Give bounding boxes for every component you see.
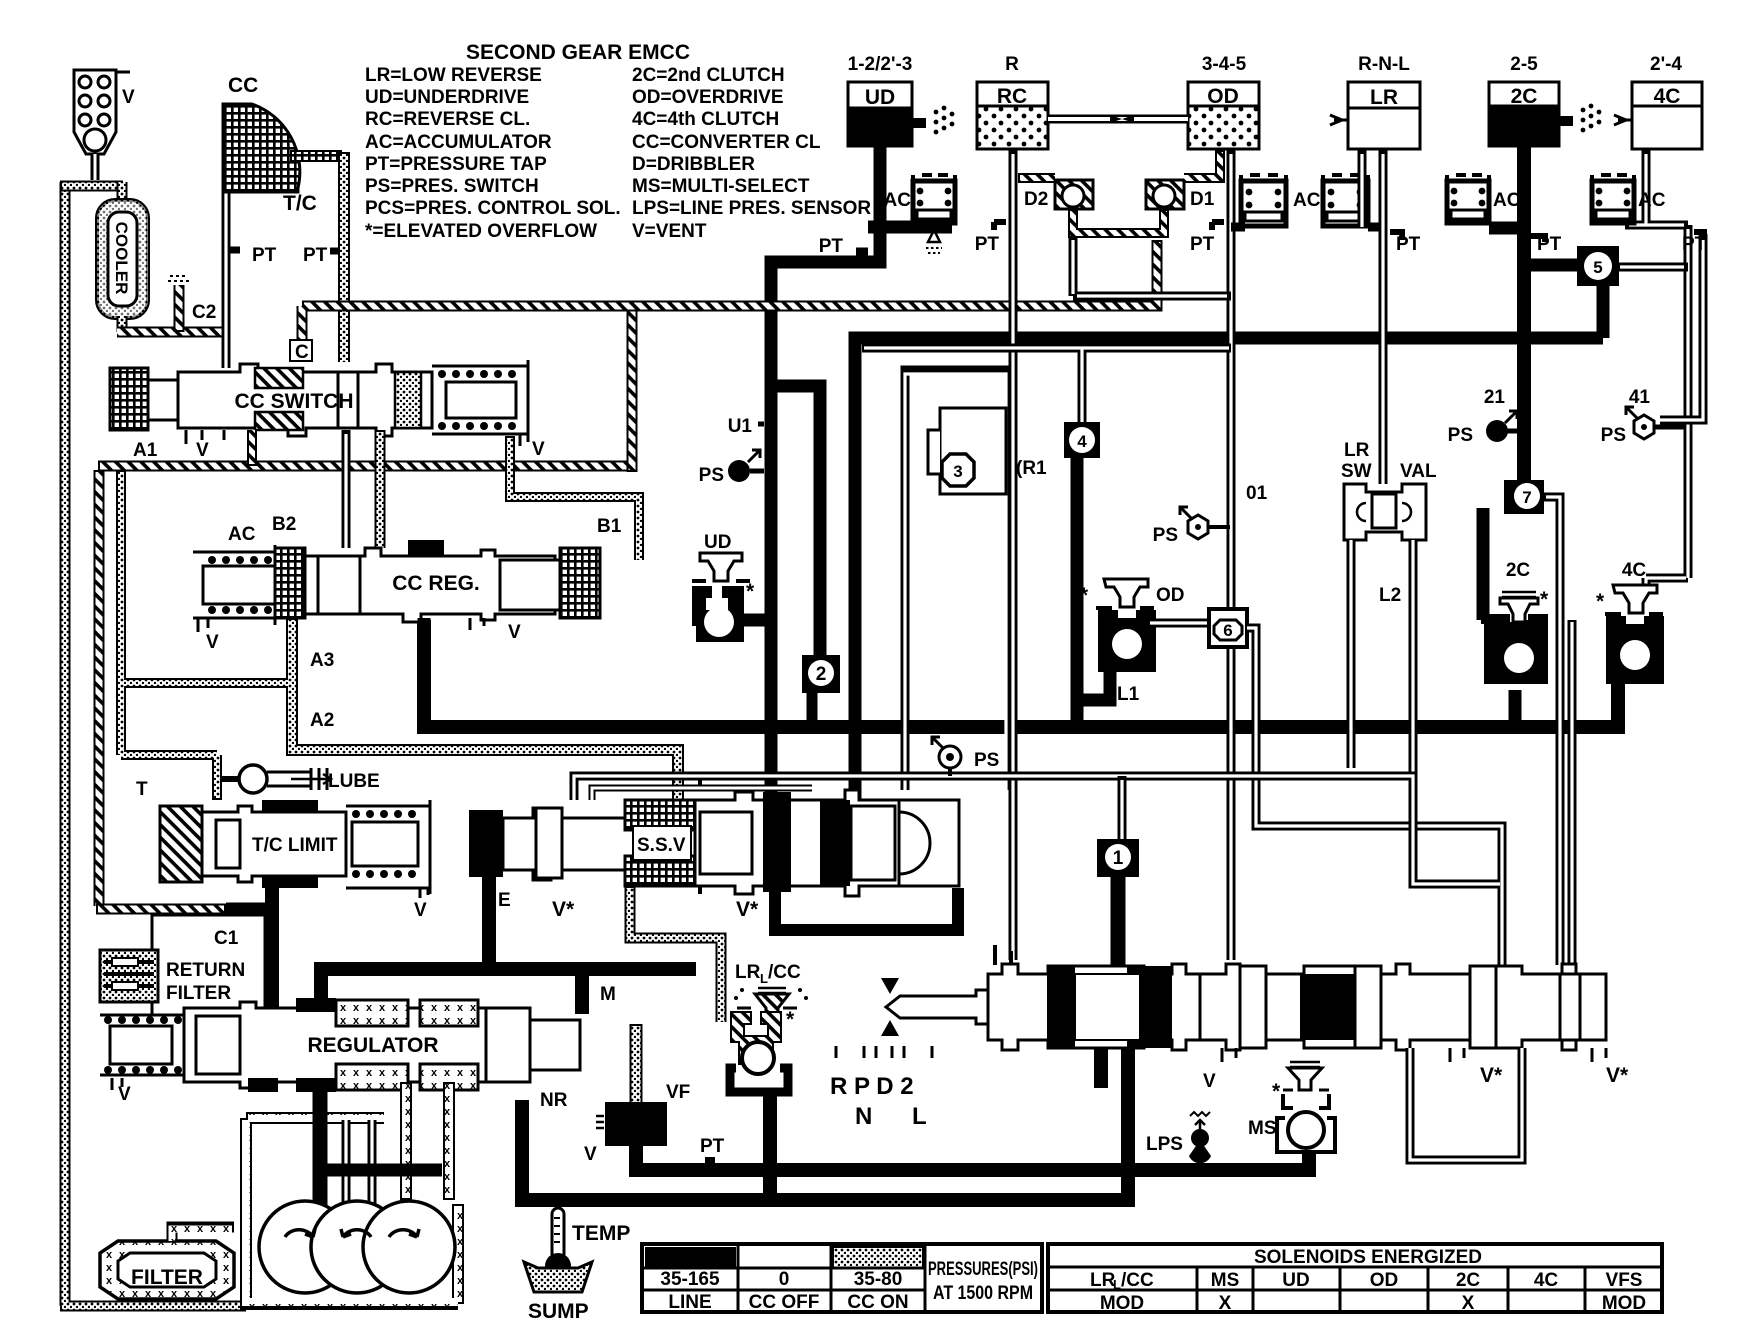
valve LR SW VAL bbox=[1344, 484, 1426, 540]
svg-text:PT: PT bbox=[1537, 234, 1562, 255]
manual valve lever bbox=[881, 978, 988, 1036]
clutch chamber UD (filled) bbox=[848, 82, 954, 146]
gear ticks bbox=[836, 1046, 932, 1058]
svg-text:2C: 2C bbox=[1456, 1270, 1481, 1291]
svg-text:V=VENT: V=VENT bbox=[632, 221, 707, 242]
svg-text:FILTER: FILTER bbox=[166, 983, 231, 1004]
svg-text:OD: OD bbox=[1156, 585, 1185, 606]
svg-text:21: 21 bbox=[1484, 387, 1506, 408]
svg-text:V*: V* bbox=[552, 898, 575, 921]
svg-text:R-N-L: R-N-L bbox=[1358, 54, 1410, 75]
check ball 4 bbox=[1064, 422, 1100, 458]
lube restrictor bbox=[222, 765, 331, 793]
svg-text:OD: OD bbox=[1370, 1270, 1399, 1291]
crosshatch pipe SSV to LRL/CC bbox=[630, 886, 721, 1022]
svg-text:35-80: 35-80 bbox=[854, 1269, 903, 1290]
svg-text:L1: L1 bbox=[1117, 684, 1140, 705]
PT stub 4C bbox=[1694, 232, 1704, 240]
svg-text:2C=2nd CLUTCH: 2C=2nd CLUTCH bbox=[632, 65, 785, 86]
thick pipe CC REG down bbox=[418, 618, 431, 727]
svg-text:(R1: (R1 bbox=[1016, 458, 1047, 479]
svg-text:PT: PT bbox=[819, 236, 844, 257]
pipe UD feed thick bbox=[771, 146, 880, 800]
suction crosshatch loop bbox=[246, 1082, 458, 1304]
hatched pipe cooler to CC line bbox=[117, 327, 228, 338]
accumulator AC (LR) bbox=[1323, 175, 1383, 227]
svg-text:E: E bbox=[498, 890, 511, 911]
svg-text:L: L bbox=[760, 971, 768, 986]
svg-text:AT 1500 RPM: AT 1500 RPM bbox=[933, 1283, 1033, 1304]
svg-text:*: * bbox=[746, 580, 755, 603]
thick pipe E down bbox=[482, 877, 496, 963]
svg-text:D1: D1 bbox=[1190, 189, 1215, 210]
svg-text:PS: PS bbox=[974, 750, 999, 771]
svg-text:SOLENOIDS ENERGIZED: SOLENOIDS ENERGIZED bbox=[1254, 1247, 1482, 1268]
svg-text:*=ELEVATED OVERFLOW: *=ELEVATED OVERFLOW bbox=[365, 221, 597, 242]
stipple riser to CC REG bbox=[375, 430, 386, 548]
dribbler D2 bbox=[1055, 180, 1093, 209]
svg-text:REGULATOR: REGULATOR bbox=[307, 1034, 438, 1057]
svg-text:/CC: /CC bbox=[768, 962, 801, 983]
hatched link OD to D1 bbox=[1184, 150, 1220, 178]
svg-text:SUMP: SUMP bbox=[528, 1300, 589, 1323]
svg-text:4C=4th CLUTCH: 4C=4th CLUTCH bbox=[632, 109, 779, 130]
cooler feed stub bbox=[117, 182, 128, 205]
main line thick y338 bbox=[855, 338, 1603, 800]
svg-text:L: L bbox=[912, 1103, 927, 1130]
svg-text:2: 2 bbox=[816, 664, 827, 685]
thick pipe LRL down bbox=[763, 1092, 777, 1200]
svg-text:LR=LOW REVERSE: LR=LOW REVERSE bbox=[365, 65, 542, 86]
PT stub on T/C return line bbox=[330, 248, 338, 255]
svg-text:RC: RC bbox=[997, 85, 1027, 108]
pipe 4C sol down to main bbox=[1612, 674, 1625, 720]
pipe E2 short bbox=[592, 788, 812, 800]
accumulator AC (UD) bbox=[868, 175, 955, 227]
svg-text:1-2/2'-3: 1-2/2'-3 bbox=[848, 54, 913, 75]
C2 hatched stub bbox=[174, 285, 185, 332]
svg-text:*: * bbox=[1272, 1080, 1281, 1103]
clutch chamber OD (dotted) bbox=[1188, 82, 1259, 149]
check ball 3 bbox=[928, 408, 1006, 494]
pipe B1 (stipple) bbox=[510, 436, 639, 560]
svg-text:PT=PRESSURE TAP: PT=PRESSURE TAP bbox=[365, 154, 547, 175]
main line thick y727 bbox=[424, 620, 1618, 727]
thermometer TEMP bbox=[545, 1208, 571, 1279]
hatched pipe T/C right then down bbox=[290, 150, 342, 162]
svg-text:NR: NR bbox=[540, 1090, 568, 1111]
svg-text:LR: LR bbox=[1090, 1270, 1116, 1291]
svg-text:V*: V* bbox=[736, 898, 759, 921]
PT stub RC bbox=[994, 222, 1006, 230]
solenoid LRL/CC bbox=[730, 988, 797, 1092]
svg-text:1: 1 bbox=[1113, 848, 1124, 869]
svg-text:LINE: LINE bbox=[668, 1292, 711, 1313]
valve CC REG body bbox=[275, 548, 600, 630]
check ball 7 bbox=[1504, 480, 1544, 514]
svg-text:UD: UD bbox=[1282, 1270, 1309, 1291]
svg-text:OD: OD bbox=[1207, 85, 1239, 108]
pipe vent down to loop bbox=[91, 154, 100, 180]
svg-text:AC: AC bbox=[884, 190, 912, 211]
svg-text:PCS: PCS bbox=[616, 1116, 655, 1137]
hatched drop left x99 bbox=[94, 470, 105, 906]
pipe R1 loop bbox=[905, 370, 1010, 790]
solenoid 4C overflow bbox=[1605, 585, 1664, 684]
svg-text:2C: 2C bbox=[1511, 85, 1538, 108]
valve CC SWITCH bbox=[110, 360, 528, 446]
svg-text:3: 3 bbox=[953, 462, 962, 481]
svg-text:SW: SW bbox=[1341, 461, 1372, 482]
svg-text:V: V bbox=[508, 622, 521, 643]
svg-text:R: R bbox=[1005, 54, 1019, 75]
pipe LRSW left down + L1 junction bbox=[1351, 540, 1413, 775]
svg-text:VF: VF bbox=[666, 1082, 690, 1103]
svg-text:M: M bbox=[600, 984, 616, 1005]
pipe 4C PT drop bbox=[1660, 234, 1703, 420]
black caps regulator bbox=[248, 998, 336, 1092]
clutch chamber 4C (empty) bbox=[1614, 82, 1702, 149]
svg-text:AC: AC bbox=[1638, 190, 1666, 211]
svg-text:PS: PS bbox=[1601, 425, 1626, 446]
svg-text:5: 5 bbox=[1593, 258, 1602, 277]
pipe ball5 to 4C column bbox=[1618, 263, 1688, 272]
svg-text:PS: PS bbox=[699, 465, 724, 486]
spray dots LRL bbox=[734, 988, 808, 1000]
solenoids energized table bbox=[1048, 1244, 1662, 1314]
stippled suction pipe left side tall bbox=[60, 182, 246, 1306]
pipe 4C feed bbox=[1625, 150, 1688, 585]
PT stub bottom bbox=[705, 1157, 715, 1163]
PT stub LR bbox=[1390, 232, 1402, 240]
pump feed channels bbox=[346, 1120, 372, 1204]
pipe OD sol down bbox=[1077, 668, 1110, 700]
return filter element bbox=[100, 950, 158, 1002]
svg-text:T/C LIMIT: T/C LIMIT bbox=[252, 835, 338, 856]
svg-text:RC=REVERSE CL.: RC=REVERSE CL. bbox=[365, 109, 530, 130]
pipe OD sol to ball 6 bbox=[1148, 619, 1209, 628]
pipe 7 left leg thick bbox=[1477, 508, 1490, 620]
pump pressure out thick bbox=[313, 1080, 328, 1210]
svg-text:PS: PS bbox=[1448, 425, 1473, 446]
svg-text:MS: MS bbox=[1248, 1118, 1277, 1139]
svg-text:V: V bbox=[414, 900, 427, 921]
black loop under SSV right bbox=[775, 888, 958, 930]
accumulator AC (2C) bbox=[1447, 175, 1524, 228]
dribbler D1 bbox=[1146, 180, 1184, 209]
svg-text:PT: PT bbox=[1682, 234, 1707, 255]
torque converter T/C hatched lobe bbox=[223, 104, 300, 192]
solenoid 2C overflow bbox=[1481, 592, 1548, 684]
svg-text:4: 4 bbox=[1077, 432, 1087, 451]
pressure switch PS (4C, hex) bbox=[1626, 407, 1684, 439]
svg-text:4C: 4C bbox=[1622, 560, 1647, 581]
pipe RC PT column bbox=[1009, 150, 1018, 960]
svg-text:LPS: LPS bbox=[1146, 1134, 1183, 1155]
dribbler spray under UD AC bbox=[928, 230, 940, 242]
svg-text:PT: PT bbox=[700, 1136, 725, 1157]
svg-text:VAL: VAL bbox=[1400, 461, 1437, 482]
svg-text:MOD: MOD bbox=[1602, 1293, 1646, 1314]
svg-text:AC: AC bbox=[1493, 190, 1521, 211]
xhatch pockets regulator bbox=[336, 1000, 408, 1026]
svg-text:MS=MULTI-SELECT: MS=MULTI-SELECT bbox=[632, 176, 810, 197]
pressure switch PS (L1) bbox=[932, 737, 961, 776]
hatched U D2-D1 bbox=[1073, 209, 1164, 233]
manual valve body bbox=[988, 964, 1202, 1050]
svg-text:B2: B2 bbox=[272, 514, 296, 535]
svg-text:V*: V* bbox=[1480, 1064, 1503, 1087]
spring CC SWITCH bbox=[432, 360, 528, 440]
svg-text:T: T bbox=[136, 779, 148, 800]
svg-text:V: V bbox=[206, 632, 219, 653]
COOLER bbox=[97, 200, 148, 318]
svg-text:41: 41 bbox=[1629, 387, 1651, 408]
bottom line 2 bbox=[522, 1048, 1128, 1200]
svg-text:LUBE: LUBE bbox=[328, 771, 380, 792]
svg-text:01: 01 bbox=[1246, 483, 1268, 504]
pump circle 3 bbox=[363, 1201, 455, 1293]
svg-text:CC: CC bbox=[228, 74, 258, 97]
svg-text:SECOND GEAR EMCC: SECOND GEAR EMCC bbox=[466, 41, 690, 64]
pump circle 1 bbox=[259, 1201, 351, 1293]
svg-text:PS=PRES. SWITCH: PS=PRES. SWITCH bbox=[365, 176, 539, 197]
branch to ball 5 bbox=[1524, 259, 1580, 272]
svg-text:CC ON: CC ON bbox=[847, 1292, 908, 1313]
PT stub OD bbox=[1212, 222, 1224, 230]
svg-text:V: V bbox=[122, 87, 135, 108]
pipe L1 bbox=[574, 776, 1500, 884]
svg-text:PT: PT bbox=[1396, 234, 1421, 255]
white tank loop bbox=[1410, 1048, 1522, 1160]
check ball 1 bbox=[1097, 839, 1139, 877]
valve rear clutch spool bbox=[1200, 964, 1606, 1050]
svg-text:35-165: 35-165 bbox=[660, 1269, 720, 1290]
svg-text:AC: AC bbox=[228, 524, 256, 545]
pipe cooler bottom bbox=[117, 316, 128, 332]
pump circle 2 bbox=[311, 1201, 403, 1293]
check ball 6 bbox=[1209, 609, 1247, 647]
svg-text:LR: LR bbox=[1370, 86, 1398, 109]
accumulator AC (4C) bbox=[1592, 175, 1634, 223]
PT stub on CC line bbox=[230, 247, 240, 254]
svg-text:4C: 4C bbox=[1534, 1270, 1559, 1291]
sump SUMP bbox=[524, 1262, 592, 1292]
svg-text:2-5: 2-5 bbox=[1510, 54, 1538, 75]
filter FILTER bbox=[100, 1241, 234, 1299]
valve S.S.V bbox=[469, 800, 695, 886]
svg-text:*: * bbox=[1596, 590, 1605, 613]
pipe L1 branch to ball 1 bbox=[1118, 776, 1127, 840]
svg-text:V: V bbox=[196, 440, 209, 461]
thick black top ports of T/C LIMIT bbox=[262, 800, 318, 888]
pipe B2 bbox=[342, 430, 351, 548]
stipple pipe M to PCS bbox=[630, 1024, 643, 1102]
svg-text:LR: LR bbox=[735, 962, 761, 983]
pump arrows bbox=[285, 1229, 315, 1237]
thick pipe ball1 to manual valve bbox=[1111, 877, 1126, 965]
crosshatch pipe A3/A2 bbox=[292, 618, 678, 802]
svg-text:MS: MS bbox=[1211, 1270, 1240, 1291]
hatched line A1 y466 bbox=[98, 461, 632, 472]
svg-text:S.S.V: S.S.V bbox=[637, 835, 686, 856]
svg-text:2'-4: 2'-4 bbox=[1650, 54, 1682, 75]
svg-text:V: V bbox=[118, 1084, 131, 1105]
svg-text:A2: A2 bbox=[310, 710, 334, 731]
svg-text:PS: PS bbox=[1153, 525, 1178, 546]
svg-text:3-4-5: 3-4-5 bbox=[1202, 54, 1247, 75]
restrictor pipe RC to OD bbox=[1048, 115, 1188, 124]
clutch chamber LR (empty) bbox=[1330, 82, 1420, 149]
pipe 7 right to valve bbox=[1544, 497, 1560, 965]
return filter box bbox=[152, 915, 265, 1015]
svg-text:UD: UD bbox=[865, 86, 895, 109]
svg-text:OD=OVERDRIVE: OD=OVERDRIVE bbox=[632, 87, 784, 108]
label C (port) bbox=[290, 340, 312, 361]
valve REGULATOR bbox=[100, 1002, 580, 1090]
svg-text:4C: 4C bbox=[1654, 85, 1681, 108]
vent V symbol top-left bbox=[74, 70, 130, 154]
clutch chamber 2C (filled) bbox=[1489, 82, 1601, 146]
svg-text:*: * bbox=[1540, 588, 1549, 611]
legend column 1 bbox=[365, 65, 621, 242]
hatched pipe return filter bbox=[96, 904, 226, 915]
svg-text:COOLER: COOLER bbox=[112, 222, 131, 295]
solenoid PCS bbox=[596, 1102, 667, 1146]
solenoid MS bbox=[1277, 1062, 1335, 1152]
accumulator AC (OD) bbox=[1231, 175, 1286, 227]
svg-text:TEMP: TEMP bbox=[572, 1222, 630, 1245]
svg-text:CC OFF: CC OFF bbox=[749, 1292, 820, 1313]
valve S.S.V right section bbox=[695, 778, 959, 896]
svg-text:FILTER: FILTER bbox=[131, 1266, 203, 1289]
thick line E to regulator bbox=[321, 969, 696, 1014]
pressures table bbox=[642, 1244, 1042, 1313]
svg-text:LR: LR bbox=[1344, 440, 1370, 461]
svg-text:MOD: MOD bbox=[1100, 1293, 1144, 1314]
sensor LPS bbox=[1189, 1112, 1211, 1163]
pressure switch PS (2C) bbox=[1486, 411, 1518, 442]
valve T/C LIMIT bbox=[160, 800, 430, 898]
svg-text:*: * bbox=[786, 1008, 795, 1031]
svg-text:L: L bbox=[1113, 1277, 1121, 1292]
pipe ball6 down staircase to valve bbox=[1247, 628, 1502, 965]
pipe 4 riser bbox=[862, 238, 1231, 422]
svg-text:A1: A1 bbox=[133, 440, 158, 461]
svg-text:V: V bbox=[1203, 1071, 1216, 1092]
svg-text:X: X bbox=[1219, 1293, 1232, 1314]
check ball 2 bbox=[802, 655, 840, 693]
svg-text:0: 0 bbox=[779, 1269, 790, 1290]
svg-text:UD: UD bbox=[704, 532, 731, 553]
svg-text:U1: U1 bbox=[728, 416, 753, 437]
svg-text:PT: PT bbox=[303, 245, 328, 266]
svg-text:VFS: VFS bbox=[1606, 1270, 1643, 1291]
PT stub UD bbox=[856, 248, 868, 257]
legend column 2 bbox=[632, 65, 871, 242]
svg-text:LPS=LINE PRES. SENSOR: LPS=LINE PRES. SENSOR bbox=[632, 198, 871, 219]
svg-text:A3: A3 bbox=[310, 650, 334, 671]
svg-text:CC REG.: CC REG. bbox=[392, 572, 480, 595]
bottom line 1 bbox=[636, 1145, 1309, 1170]
svg-text:UD=UNDERDRIVE: UD=UNDERDRIVE bbox=[365, 87, 529, 108]
svg-text:B1: B1 bbox=[597, 516, 622, 537]
svg-text:CC=CONVERTER CL: CC=CONVERTER CL bbox=[632, 132, 821, 153]
port stubs under CC SWITCH bbox=[186, 430, 224, 444]
svg-text:T/C: T/C bbox=[283, 192, 317, 215]
accumulator AC (CC REG, spring box) bbox=[193, 545, 275, 632]
CC double pipe down to CC SWITCH bbox=[222, 112, 231, 368]
svg-text:PCS=PRES. CONTROL SOL.: PCS=PRES. CONTROL SOL. bbox=[365, 198, 621, 219]
svg-text:AC: AC bbox=[1293, 190, 1321, 211]
svg-text:R P D 2: R P D 2 bbox=[830, 1073, 914, 1100]
svg-text:RETURN: RETURN bbox=[166, 960, 245, 981]
svg-text:AC=ACCUMULATOR: AC=ACCUMULATOR bbox=[365, 132, 552, 153]
svg-text:*: * bbox=[1080, 584, 1089, 607]
svg-text:CC SWITCH: CC SWITCH bbox=[235, 390, 354, 413]
svg-text:X: X bbox=[1462, 1293, 1475, 1314]
svg-text:PT: PT bbox=[252, 245, 277, 266]
solenoid OD overflow bbox=[1096, 579, 1156, 672]
CC REG top cap bbox=[408, 540, 444, 556]
pump discharge branch bbox=[313, 1164, 442, 1177]
svg-text:C2: C2 bbox=[192, 302, 216, 323]
pipe stubs above manual valve bbox=[995, 945, 1011, 965]
hatched riser x632 bbox=[627, 306, 638, 472]
thick pipe under ball 4 bbox=[1071, 458, 1084, 727]
svg-text:/CC: /CC bbox=[1121, 1270, 1154, 1291]
pipe OD PT column bbox=[1227, 150, 1236, 960]
svg-text:C1: C1 bbox=[214, 928, 239, 949]
thick stub valve bottom bbox=[1094, 1048, 1108, 1088]
stipple loop A1 to T and A3 bbox=[121, 470, 288, 800]
svg-text:V: V bbox=[584, 1144, 597, 1165]
svg-text:V*: V* bbox=[1606, 1064, 1629, 1087]
svg-text:D=DRIBBLER: D=DRIBBLER bbox=[632, 154, 755, 175]
pipe ball5 down to main line bbox=[1597, 286, 1610, 338]
svg-text:6: 6 bbox=[1223, 621, 1232, 640]
svg-text:2C: 2C bbox=[1506, 560, 1531, 581]
filter stub bbox=[172, 1227, 234, 1241]
hatched link RC to D2 bbox=[1018, 173, 1055, 183]
check ball 5 bbox=[1577, 246, 1619, 286]
pipe 2C feed thick bbox=[1517, 146, 1531, 486]
solenoid UD overflow bbox=[692, 553, 771, 642]
port stubs below big valve bbox=[1222, 1048, 1606, 1062]
pressure switch PS (row y530) bbox=[1180, 507, 1230, 539]
pipe below ball 2 bbox=[807, 693, 818, 727]
svg-text:V: V bbox=[532, 439, 545, 460]
svg-text:PRESSURES(PSI): PRESSURES(PSI) bbox=[928, 1259, 1038, 1280]
svg-text:C: C bbox=[295, 342, 309, 363]
clutch chamber RC (dotted) bbox=[977, 82, 1048, 149]
svg-text:PT: PT bbox=[1190, 234, 1215, 255]
svg-text:PT: PT bbox=[975, 234, 1000, 255]
PT stub 2C bbox=[1531, 236, 1545, 242]
thick pipe C1 bbox=[265, 888, 279, 1012]
svg-text:N: N bbox=[855, 1103, 872, 1130]
hatched line y306 bbox=[302, 240, 1157, 352]
pipe LR PT column bbox=[1362, 150, 1383, 484]
pressure switch PS (U1) bbox=[728, 450, 764, 482]
branch UD line to ball 2 bbox=[771, 386, 820, 660]
svg-text:D2: D2 bbox=[1024, 189, 1048, 210]
svg-text:L2: L2 bbox=[1379, 585, 1401, 606]
pipe 2C sol to main thick bbox=[1509, 690, 1522, 727]
svg-text:7: 7 bbox=[1522, 488, 1531, 507]
hatched stub C port down bbox=[247, 430, 257, 466]
